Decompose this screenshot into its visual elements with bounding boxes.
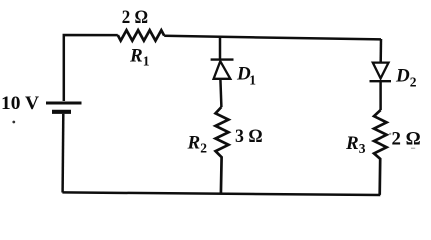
svg-text:R3: R3 <box>345 133 366 156</box>
svg-text:D1: D1 <box>236 64 256 88</box>
svg-text:2 Ω: 2 Ω <box>392 129 421 150</box>
svg-text:R2: R2 <box>187 132 208 155</box>
svg-text:D2: D2 <box>395 65 417 89</box>
svg-text:3 Ω: 3 Ω <box>235 126 263 147</box>
svg-text:2 Ω: 2 Ω <box>122 7 148 28</box>
svg-text:10 V: 10 V <box>1 93 39 114</box>
svg-text:R1: R1 <box>129 46 150 69</box>
